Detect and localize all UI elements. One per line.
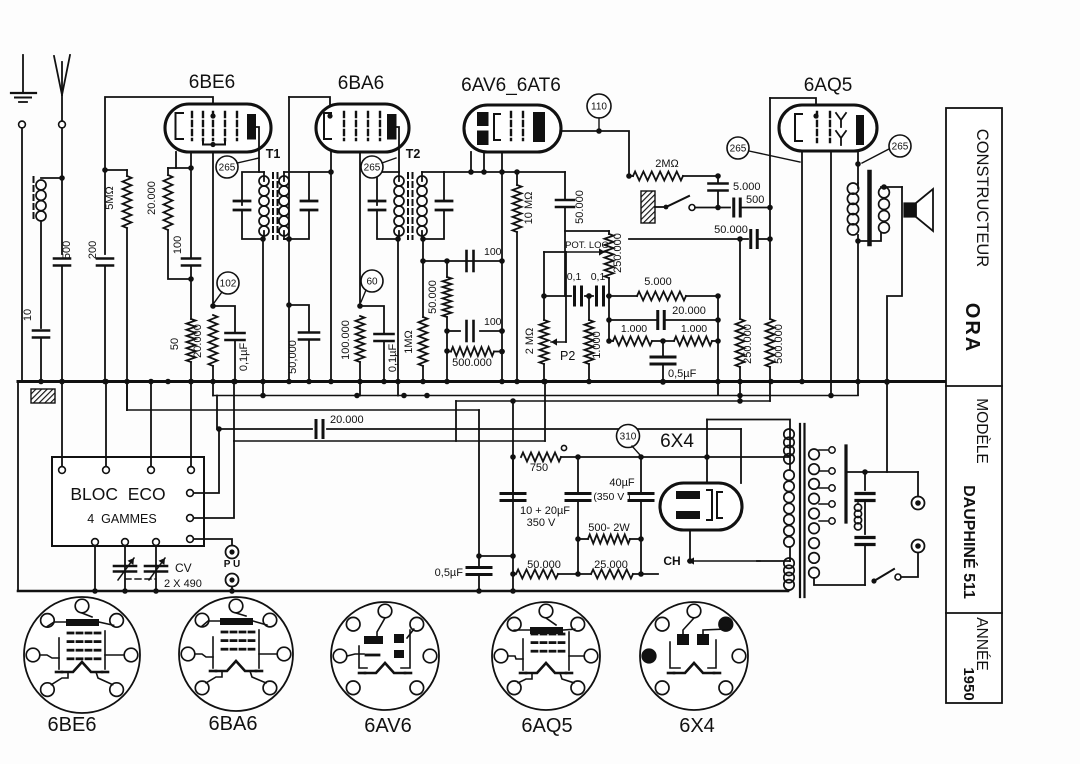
mains terminal 1 — [912, 497, 925, 510]
wire T2 primary bottom to bus — [397, 239, 399, 381]
svg-text:6AQ5: 6AQ5 — [521, 715, 572, 737]
wire tone right column — [717, 296, 719, 395]
capacitor 0,1uF second — [360, 306, 384, 333]
svg-text:0,5µF: 0,5µF — [668, 368, 697, 380]
capacitor 10+20uF — [512, 457, 514, 493]
wire detector line — [423, 260, 502, 262]
svg-text:500- 2W: 500- 2W — [588, 522, 630, 534]
resistor 5M ohm — [123, 176, 132, 228]
tube socket 6AQ5 — [492, 602, 600, 710]
tone network wire 2 — [608, 296, 610, 341]
wire gang to chassis — [94, 546, 96, 591]
svg-text:1MΩ: 1MΩ — [403, 330, 415, 354]
switch lever — [666, 196, 689, 207]
BLOC ECO terminals top — [61, 382, 63, 467]
variable capacitor CV 2 — [155, 546, 157, 591]
svg-text:P2: P2 — [560, 349, 575, 363]
antenna symbol — [61, 95, 63, 123]
svg-text:20.000: 20.000 — [330, 414, 364, 426]
svg-text:DAUPHINÉ 511: DAUPHINÉ 511 — [960, 485, 979, 599]
wire plate supply to transformer — [707, 456, 790, 458]
volume network wire — [543, 252, 545, 296]
svg-text:2MΩ: 2MΩ — [655, 158, 679, 170]
PU terminal bottom — [226, 574, 239, 587]
capacitor 5.000 — [717, 176, 719, 183]
svg-text:P U: P U — [224, 559, 241, 570]
capacitor 100 upper — [465, 251, 468, 271]
resistor 100.000 — [357, 303, 363, 309]
T2 secondary — [417, 176, 427, 186]
svg-text:60: 60 — [366, 277, 378, 288]
svg-text:20.000: 20.000 — [672, 305, 706, 317]
circle ref 265 T2 — [361, 156, 383, 178]
svg-text:1.000: 1.000 — [591, 331, 603, 359]
tube socket 6BE6 — [24, 597, 140, 713]
6BE6 cathode pin — [190, 152, 192, 168]
resistor 750 — [521, 453, 561, 462]
mains taps — [819, 449, 829, 451]
wire bloc eco to L4 — [194, 429, 219, 493]
resistor 500.000 rail — [766, 319, 775, 367]
tube 6BE6 envelope — [165, 104, 271, 152]
capacitor 500 — [54, 257, 70, 260]
svg-text:6BE6: 6BE6 — [189, 72, 235, 93]
svg-text:CH: CH — [663, 554, 680, 568]
svg-text:265: 265 — [730, 144, 747, 155]
power transformer mid winding — [784, 470, 794, 480]
wire B+ column 6BA6 — [288, 97, 290, 381]
capacitor 0,1uF first — [213, 306, 235, 332]
svg-text:5.000: 5.000 — [644, 276, 672, 288]
svg-text:20.000: 20.000 — [146, 181, 158, 215]
resistor 10M — [513, 185, 522, 232]
svg-text:350 V: 350 V — [527, 517, 556, 529]
shield bar — [844, 446, 847, 522]
capacitor 100 cathode — [190, 168, 192, 258]
svg-text:10 + 20µF: 10 + 20µF — [520, 505, 570, 517]
6AV6 internals — [477, 112, 489, 126]
mains wire top — [846, 471, 918, 473]
6AV6 plate wire — [561, 131, 629, 176]
power transformer mains winding — [809, 449, 820, 460]
svg-text:5MΩ: 5MΩ — [104, 186, 116, 210]
svg-text:265: 265 — [364, 163, 381, 174]
svg-text:50: 50 — [169, 338, 181, 350]
circle ref 110 — [587, 94, 611, 118]
tube 6BA6 envelope — [316, 104, 409, 152]
BLOC ECO terminals right — [187, 490, 194, 497]
mains capacitor 1 — [864, 472, 866, 490]
output transformer secondary — [879, 187, 890, 198]
wire to transformer top — [707, 420, 790, 430]
6BE6 internals — [176, 113, 184, 139]
tube socket 6BA6 — [179, 597, 293, 711]
wire to 5M — [105, 169, 127, 171]
capacitor 0,5uF tone — [662, 341, 664, 356]
resistor 50.000 power — [516, 570, 558, 579]
svg-text:50.000: 50.000 — [574, 190, 586, 224]
resistor 2M top — [629, 175, 633, 177]
wire T1 primary bottom to bus — [262, 239, 264, 381]
svg-text:500: 500 — [746, 194, 764, 206]
wire 20.000 bottom to cathode — [168, 230, 191, 279]
capacitor 50,000 AGC — [289, 305, 309, 331]
speaker wires — [881, 186, 902, 188]
coil core dashes — [33, 177, 35, 222]
wire 6BA6 top rail — [289, 97, 330, 116]
svg-text:265: 265 — [892, 142, 909, 153]
BLOC ECO terminals bottom — [92, 539, 99, 546]
resistor 1.000 right — [674, 337, 712, 346]
6AV6 diode pin left — [470, 152, 472, 172]
svg-text:0,1: 0,1 — [591, 271, 606, 283]
resistor 20.000 osc grid — [167, 168, 169, 175]
6AQ5 cathode pin — [801, 151, 803, 381]
svg-text:T1: T1 — [266, 147, 281, 161]
wire bundle L5 — [234, 440, 545, 442]
maker info sidebar — [946, 108, 1002, 703]
svg-text:250.000: 250.000 — [612, 233, 624, 273]
resistor 1.000 left — [613, 337, 652, 346]
P2 wiper arrow pot — [566, 251, 605, 253]
svg-text:POT. LOG: POT. LOG — [565, 240, 609, 251]
circle ref 102 — [217, 272, 239, 294]
svg-text:(350 V ): (350 V ) — [593, 491, 630, 503]
speaker — [904, 203, 916, 217]
wire bundle L2 — [213, 395, 858, 397]
wire antenna down — [61, 128, 63, 254]
wire T1 secondary bottom — [284, 238, 289, 240]
svg-text:1.000: 1.000 — [681, 323, 707, 335]
svg-text:0,1µF: 0,1µF — [238, 343, 250, 372]
hatched block switch — [641, 191, 655, 223]
ground symbol (antenna earth) — [22, 55, 24, 93]
T1 secondary — [279, 176, 289, 186]
wire 6AQ5 screen feed — [770, 98, 816, 116]
svg-text:ANNÉE: ANNÉE — [973, 617, 990, 670]
wire pot top — [565, 230, 609, 232]
svg-text:6AQ5: 6AQ5 — [804, 75, 853, 96]
capacitor 40uF — [577, 457, 579, 493]
6BA6 plate wire to T2 — [397, 127, 400, 172]
capacitor 0,1 first — [573, 287, 576, 305]
svg-text:750: 750 — [530, 462, 548, 474]
6AQ5 internals — [795, 114, 802, 141]
svg-text:500: 500 — [61, 241, 73, 259]
circle ref 265 6AQ5 right — [889, 135, 911, 157]
main bus wire — [18, 380, 944, 383]
mains capacitor 2 — [856, 536, 874, 539]
svg-text:100.000: 100.000 — [340, 320, 352, 360]
circle ref 310 — [617, 425, 640, 448]
svg-text:50,000: 50,000 — [287, 340, 299, 374]
resistor 500.000 detector — [451, 347, 494, 356]
capacitor 10 — [33, 329, 49, 332]
PU terminal top — [226, 546, 239, 559]
terminal antenna — [59, 121, 66, 128]
svg-text:250.000: 250.000 — [742, 324, 754, 364]
6BA6 internals — [324, 113, 331, 139]
svg-text:0,5µF: 0,5µF — [435, 567, 464, 579]
chassis bottom wire — [18, 590, 788, 593]
6AV6 grid line — [444, 171, 565, 173]
svg-text:4 GAMMES: 4 GAMMES — [87, 512, 156, 526]
wire bundle L4 with capacitor 20.000 — [217, 396, 312, 430]
wire bundle L3 — [127, 409, 479, 411]
svg-text:ORA: ORA — [961, 303, 983, 353]
capacitor 20.000 tone — [609, 319, 656, 321]
tube socket 6X4 — [640, 602, 748, 710]
capacitor 100 lower — [465, 321, 468, 341]
svg-text:10 MΩ: 10 MΩ — [523, 192, 535, 225]
capacitor 0,1 second — [595, 287, 598, 305]
BLOC ECO box — [52, 457, 204, 546]
antenna coil L1 — [41, 177, 62, 179]
P2 wiper arrow — [551, 341, 566, 343]
circle ref 265 T1 — [216, 156, 238, 178]
resistor 250.000 rail — [739, 239, 741, 319]
resistor 20.000 AGC — [210, 303, 216, 309]
svg-text:500.000: 500.000 — [452, 357, 492, 369]
6X4 cathode wire — [689, 530, 691, 561]
svg-text:1950: 1950 — [960, 667, 977, 700]
capacitor 200 — [104, 170, 106, 254]
wire T2 secondary bottom / resistor 1M — [422, 239, 424, 261]
dial lamp coil — [854, 504, 861, 511]
svg-text:BLOC ECO: BLOC ECO — [70, 484, 165, 504]
svg-text:6BE6: 6BE6 — [48, 714, 97, 736]
tube socket 6AV6 — [331, 602, 439, 710]
T2 core — [407, 173, 409, 239]
resistor 50.000 detector — [444, 258, 450, 264]
svg-text:10: 10 — [22, 309, 34, 321]
svg-text:110: 110 — [591, 102, 607, 113]
svg-text:310: 310 — [620, 432, 637, 443]
circle ref 265 6AQ5 left — [727, 137, 749, 159]
svg-text:CONSTRUCTEUR: CONSTRUCTEUR — [973, 129, 991, 267]
tube 6X4 envelope — [660, 483, 742, 530]
tube 6AQ5 envelope — [779, 105, 877, 151]
resistor 1.000 vertical — [585, 320, 594, 364]
6BE6 grid pin — [212, 152, 214, 306]
wire plate supply — [578, 456, 707, 458]
resistor 50 — [187, 319, 196, 362]
6BA6 cathode pin to bus — [330, 152, 332, 172]
output transformer core — [867, 172, 872, 244]
wire B+ rail right — [769, 98, 771, 319]
wire ground to bus — [21, 128, 23, 381]
svg-text:100: 100 — [484, 316, 502, 328]
svg-text:6AV6: 6AV6 — [364, 715, 411, 737]
wire top rail 6BE6 — [105, 97, 213, 168]
6BE6 plate wire to T1 — [256, 127, 259, 172]
svg-text:6X4: 6X4 — [679, 715, 715, 737]
resistor 2M P2 — [540, 320, 549, 364]
resistor 500-2W — [588, 535, 630, 544]
power transformer core — [799, 424, 801, 597]
svg-text:20.000: 20.000 — [192, 324, 204, 358]
svg-text:265: 265 — [219, 163, 236, 174]
capacitor 50.000 coupling — [564, 172, 566, 200]
svg-text:100: 100 — [172, 236, 184, 254]
svg-text:6BA6: 6BA6 — [338, 73, 384, 94]
T2 primary — [377, 172, 399, 205]
power B+ column — [512, 401, 514, 591]
6BA6 grid pin — [359, 152, 361, 306]
hatched chassis ground — [31, 389, 55, 403]
6X4 internals — [676, 491, 700, 499]
power transformer heater winding — [784, 558, 794, 568]
wire bloc eco to PU — [194, 539, 232, 546]
6AQ5 plate pin — [857, 151, 859, 183]
6AV6 diode pin 2 — [483, 152, 485, 172]
svg-text:25.000: 25.000 — [594, 559, 628, 571]
svg-text:200: 200 — [87, 241, 99, 259]
svg-text:0,1: 0,1 — [567, 271, 582, 283]
capacitor 500 switch — [695, 207, 730, 209]
output transformer primary — [847, 183, 858, 194]
variable capacitor CV 1 — [124, 546, 126, 591]
svg-text:40µF: 40µF — [609, 477, 635, 489]
power column 0,5uF — [478, 410, 480, 567]
power transformer primary HV winding — [784, 429, 794, 439]
svg-text:6X4: 6X4 — [660, 431, 694, 452]
svg-text:1.000: 1.000 — [621, 323, 647, 335]
wire 2M right to cap 5000 — [683, 175, 718, 177]
tube 6AV6 envelope — [464, 105, 561, 152]
mains terminal 2 — [912, 540, 925, 553]
T1 core — [272, 173, 274, 239]
resistor 25.000 — [591, 570, 633, 579]
wire bloc eco to L5 — [194, 441, 234, 518]
svg-text:50.000: 50.000 — [714, 224, 748, 236]
wire primary bottom to chassis — [788, 590, 790, 591]
6X4 plate wire 1 — [706, 420, 708, 484]
wire osc grid — [168, 167, 191, 169]
capacitor 50.000 av — [629, 238, 748, 240]
capacitor 40uF right — [640, 457, 642, 493]
6AQ5 grid pin — [830, 151, 832, 395]
svg-text:50.000: 50.000 — [527, 559, 561, 571]
svg-text:T2: T2 — [406, 147, 421, 161]
svg-text:6AV6_6AT6: 6AV6_6AT6 — [461, 75, 561, 96]
svg-text:500.000: 500.000 — [773, 324, 785, 364]
resistor 5.000 tone — [637, 292, 686, 301]
svg-text:6BA6: 6BA6 — [209, 713, 258, 735]
svg-text:5.000: 5.000 — [733, 181, 761, 193]
wire ticks bus to L2 — [262, 382, 264, 396]
svg-text:100: 100 — [484, 246, 502, 258]
wire T1 secondary top to 6BA6 grid — [309, 171, 331, 173]
svg-text:CV: CV — [175, 561, 192, 575]
svg-text:2 MΩ: 2 MΩ — [524, 328, 536, 355]
capacitor 0,5uF power — [467, 566, 491, 569]
terminal ground — [19, 121, 26, 128]
6AV6 cathode pin to bus — [501, 152, 503, 381]
svg-text:MODÈLE: MODÈLE — [973, 398, 990, 463]
T1 primary — [242, 172, 264, 205]
svg-text:102: 102 — [220, 279, 237, 290]
svg-text:50.000: 50.000 — [427, 280, 439, 314]
circle ref 60 — [361, 270, 383, 292]
wire bundle L2b — [456, 400, 770, 402]
6X4 plate wire 2 — [740, 429, 742, 483]
mains switch — [871, 578, 876, 583]
mains winding bottom wire — [814, 578, 865, 585]
svg-text:2 X 490: 2 X 490 — [164, 578, 202, 590]
speaker return wire — [887, 187, 902, 472]
